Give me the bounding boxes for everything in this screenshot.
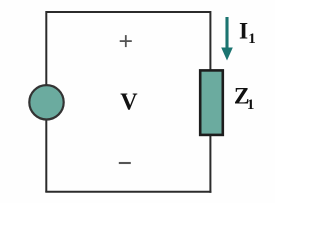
plus sign xyxy=(120,35,132,47)
svg-text:1: 1 xyxy=(247,97,255,113)
wire right lower xyxy=(209,135,211,193)
wire right upper xyxy=(209,11,211,71)
minus sign xyxy=(119,162,131,164)
wire left upper xyxy=(45,11,47,85)
wire left lower xyxy=(45,120,47,192)
current arrow I1 xyxy=(221,17,233,61)
svg-text:V: V xyxy=(120,89,138,115)
impedance Z1 (box) xyxy=(200,70,223,134)
svg-text:I: I xyxy=(239,18,248,44)
wire bottom xyxy=(45,191,211,193)
svg-text:1: 1 xyxy=(248,31,256,47)
wire top (from source to Z1) xyxy=(46,11,210,13)
voltage source V (circle) xyxy=(29,85,63,119)
